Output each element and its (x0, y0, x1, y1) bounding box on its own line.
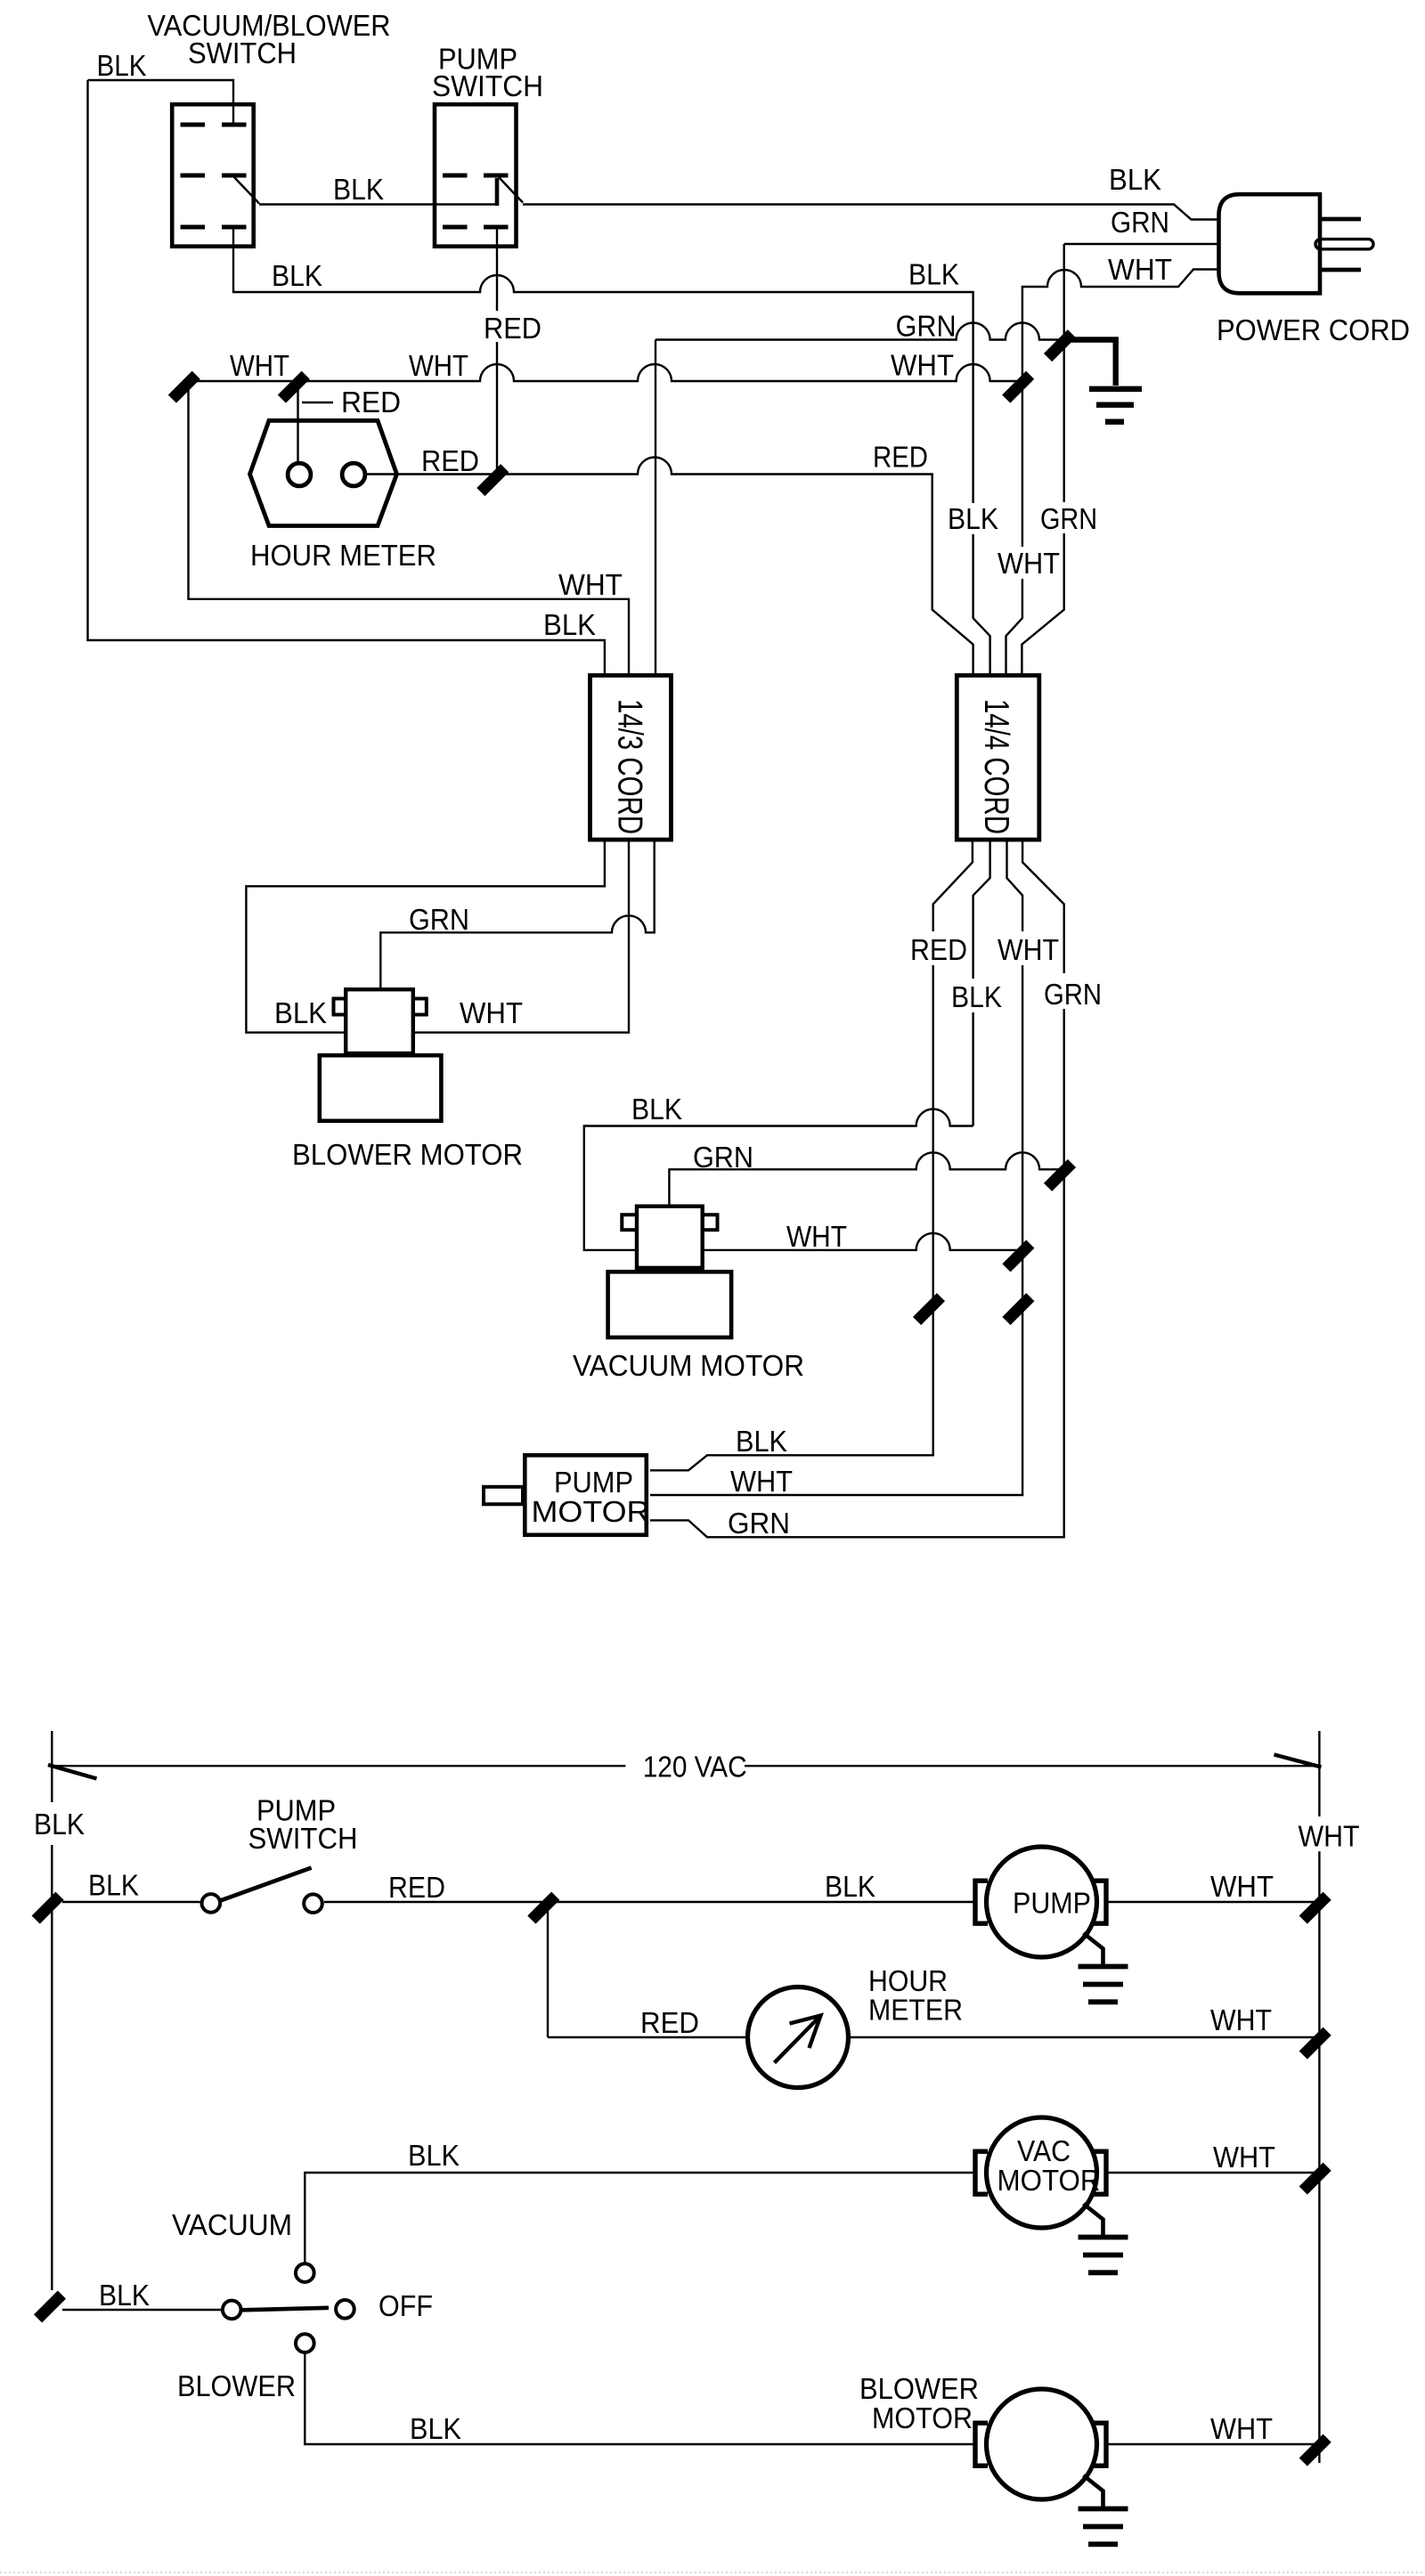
svg-text:BLK: BLK (825, 1870, 875, 1903)
pump motor (484, 1455, 650, 1535)
wire RED drop to hour meter (297, 385, 298, 463)
blower motor circle (975, 2389, 1106, 2499)
wire BLK 14/4 down (973, 840, 990, 1126)
svg-text:VAC: VAC (1017, 2134, 1071, 2167)
wire GRN to power cord (1064, 243, 1218, 245)
svg-text:RED: RED (873, 441, 928, 474)
rung1 wire BLK left (62, 1901, 200, 1903)
connector right rail rung5 (1299, 2434, 1331, 2466)
wire RED S2 bottom pin down (496, 229, 498, 469)
svg-text:PUMP: PUMP (554, 1466, 633, 1499)
svg-text:BLK: BLK (1109, 163, 1161, 196)
right rail (1318, 1731, 1320, 2463)
svg-text:WHT: WHT (730, 1465, 793, 1498)
svg-text:RED: RED (910, 933, 967, 966)
wire GRN vacuum motor (669, 1152, 1061, 1204)
vac switch contact up (296, 2263, 314, 2282)
ground pump motor (1079, 1933, 1128, 2002)
wire WHT horizontal to cords (183, 364, 1021, 381)
svg-text:WHT: WHT (230, 349, 289, 382)
svg-text:WHT: WHT (1299, 1820, 1360, 1853)
svg-text:120 VAC: 120 VAC (643, 1751, 747, 1784)
svg-text:BLK: BLK (736, 1425, 787, 1458)
14/3 CORD box (590, 676, 672, 841)
wire drop to hour meter rung (547, 1910, 549, 2037)
wire WHT vacuum motor (703, 1233, 1020, 1250)
wire RED 14/4 down (650, 840, 973, 1470)
hour meter ladder (748, 1987, 849, 2088)
vac switch lever (242, 2308, 329, 2311)
wire GRN vertical to 14/4 (1022, 244, 1063, 675)
svg-text:MOTOR: MOTOR (872, 2401, 973, 2434)
svg-text:BLOWER: BLOWER (859, 2372, 979, 2405)
connector right rail rung3 (1299, 2163, 1331, 2195)
pump switch lever (220, 1868, 311, 1901)
wire RED hour meter to 14/4 (365, 458, 973, 676)
svg-text:GRN: GRN (409, 903, 469, 936)
vac switch contact down (296, 2334, 314, 2353)
rung3 wire BLK (305, 2173, 974, 2263)
wire WHT vertical to 14/4 (1006, 388, 1022, 675)
svg-text:WHT: WHT (1210, 1870, 1274, 1903)
connector WHT splice upper-left (168, 371, 200, 403)
svg-text:GRN: GRN (1044, 978, 1102, 1011)
svg-text:POWER CORD: POWER CORD (1217, 313, 1410, 346)
svg-text:14/3 CORD: 14/3 CORD (611, 699, 649, 834)
svg-text:BLK: BLK (543, 608, 596, 641)
svg-text:BLK: BLK (34, 1808, 85, 1841)
svg-text:SWITCH: SWITCH (432, 69, 543, 102)
svg-text:RED: RED (484, 312, 541, 345)
svg-text:RED: RED (341, 386, 401, 418)
svg-text:GRN: GRN (896, 310, 957, 343)
vacuum motor (608, 1207, 732, 1337)
svg-text:BLK: BLK (631, 1093, 682, 1125)
svg-text:14/4 CORD: 14/4 CORD (977, 699, 1015, 834)
rung4 wire BLK (62, 2309, 221, 2311)
svg-text:BLK: BLK (333, 173, 384, 206)
wire WHT to power cord (1022, 270, 1218, 386)
svg-text:METER: METER (868, 1994, 963, 2027)
connector right rail rung1 (1299, 1892, 1331, 1924)
ground vac motor (1079, 2204, 1128, 2272)
pump switch S2 (435, 104, 517, 247)
svg-text:BLK: BLK (99, 2279, 150, 2312)
connector right rail rung2 (1299, 2027, 1331, 2060)
connector rung1 junction (527, 1892, 559, 1924)
120 VAC dimension line (52, 1765, 1319, 1767)
svg-text:BLK: BLK (88, 1869, 139, 1902)
vacuum/blower switch S1 (172, 104, 254, 247)
blower motor (320, 989, 442, 1121)
left rail (51, 1731, 53, 2290)
svg-text:HOUR METER: HOUR METER (250, 539, 436, 572)
vac switch contact off (336, 2300, 354, 2319)
wire S2 throw diagonal (499, 177, 523, 203)
rung5 wire BLK (305, 2353, 974, 2444)
rung5 wire WHT (1106, 2443, 1316, 2445)
wire BLK left drop to 14/3 (88, 80, 605, 675)
svg-text:BLK: BLK (410, 2412, 461, 2445)
wire BLK vacuum motor (584, 1109, 973, 1250)
svg-text:WHT: WHT (409, 349, 468, 382)
svg-text:BLOWER MOTOR: BLOWER MOTOR (292, 1138, 523, 1171)
connector RED-BLK splice (913, 1293, 945, 1325)
svg-text:BLK: BLK (97, 49, 147, 82)
connector GRN vacuum splice (1044, 1159, 1076, 1191)
svg-text:GRN: GRN (693, 1141, 753, 1174)
svg-text:HOUR: HOUR (868, 1964, 948, 1997)
pump switch contact left (202, 1894, 221, 1913)
svg-text:GRN: GRN (1111, 206, 1169, 239)
wire BLK S2 to power cord (523, 205, 1218, 220)
svg-text:PUMP: PUMP (1013, 1887, 1091, 1920)
svg-text:BLK: BLK (272, 259, 322, 292)
svg-text:MOTOR: MOTOR (532, 1495, 650, 1528)
wire BLK from line to S1 top pin (88, 80, 234, 123)
power cord plug (1219, 194, 1374, 293)
wire GRN horizontal (655, 323, 1059, 340)
svg-text:SWITCH: SWITCH (188, 37, 297, 69)
svg-text:RED: RED (388, 1871, 445, 1904)
right dimension tick (1274, 1755, 1322, 1767)
svg-text:BLK: BLK (948, 502, 998, 535)
rung1 wire RED-BLK (324, 1901, 974, 1903)
svg-text:BLOWER: BLOWER (177, 2369, 296, 2402)
wire GRN 14/3 to blower motor (380, 840, 654, 989)
connector RED splice at hour meter (476, 464, 509, 496)
page footer rule (0, 2572, 1425, 2573)
connector GRN to ground splice (1044, 329, 1076, 362)
svg-text:WHT: WHT (558, 568, 623, 601)
connector WHT splice lower (1002, 1293, 1034, 1325)
svg-text:WHT: WHT (997, 933, 1059, 966)
rung3 wire WHT (1106, 2172, 1316, 2174)
connector left rail bottom (34, 2290, 66, 2322)
svg-text:MOTOR: MOTOR (997, 2164, 1101, 2197)
svg-text:WHT: WHT (891, 348, 954, 381)
svg-text:BLK: BLK (951, 980, 1002, 1013)
svg-text:SWITCH: SWITCH (248, 1822, 358, 1855)
rung2 wire RED (548, 2036, 748, 2038)
svg-text:OFF: OFF (379, 2289, 433, 2322)
wire WHT 14/4 down (650, 840, 1022, 1495)
pump switch contact right (304, 1894, 322, 1913)
pump motor circle (975, 1847, 1106, 1957)
wire BLK 14/3 to blower motor (246, 840, 605, 1033)
svg-text:WHT: WHT (1108, 253, 1172, 286)
wire BLK S1 to S2 (259, 203, 497, 205)
svg-text:BLK: BLK (408, 2139, 460, 2172)
connector WHT splice right (1002, 371, 1034, 403)
svg-text:WHT: WHT (460, 996, 523, 1029)
svg-text:WHT: WHT (997, 547, 1060, 580)
svg-text:VACUUM MOTOR: VACUUM MOTOR (573, 1349, 804, 1382)
vac motor circle (975, 2117, 1106, 2228)
rung1 wire WHT (1106, 1901, 1316, 1903)
svg-text:WHT: WHT (786, 1220, 847, 1253)
svg-text:BLK: BLK (908, 258, 959, 291)
wire GRN corner drop (655, 340, 656, 676)
svg-text:BLK: BLK (274, 996, 327, 1029)
svg-text:GRN: GRN (728, 1507, 790, 1540)
ground at power cord (1062, 340, 1142, 422)
svg-text:RED: RED (421, 444, 479, 477)
vac switch contact common (223, 2301, 241, 2320)
wire S1 throw diagonal (233, 176, 259, 204)
connector WHT/RED hour-meter splice (278, 371, 310, 403)
left dimension tick (48, 1765, 97, 1779)
14/4 CORD box (957, 676, 1039, 841)
ground blower motor (1079, 2475, 1128, 2544)
hour meter (250, 420, 397, 525)
wire RED pointer (302, 402, 333, 404)
svg-text:WHT: WHT (1213, 2141, 1275, 2174)
rung2 wire WHT (849, 2036, 1317, 2038)
wire BLK S1 bottom pin to 14/4 BLK (233, 227, 990, 675)
connector WHT vacuum splice (1002, 1239, 1034, 1272)
svg-text:GRN: GRN (1040, 502, 1097, 535)
wire WHT drop to 14/3 (189, 386, 630, 675)
connector left rail rung1 (32, 1892, 64, 1924)
wire GRN 14/4 down (650, 840, 1064, 1537)
svg-text:WHT: WHT (1210, 2412, 1273, 2445)
wire WHT 14/3 to blower motor (413, 840, 629, 1033)
svg-text:WHT: WHT (1210, 2003, 1272, 2036)
svg-text:RED: RED (640, 2006, 699, 2039)
svg-text:VACUUM: VACUUM (172, 2208, 292, 2241)
